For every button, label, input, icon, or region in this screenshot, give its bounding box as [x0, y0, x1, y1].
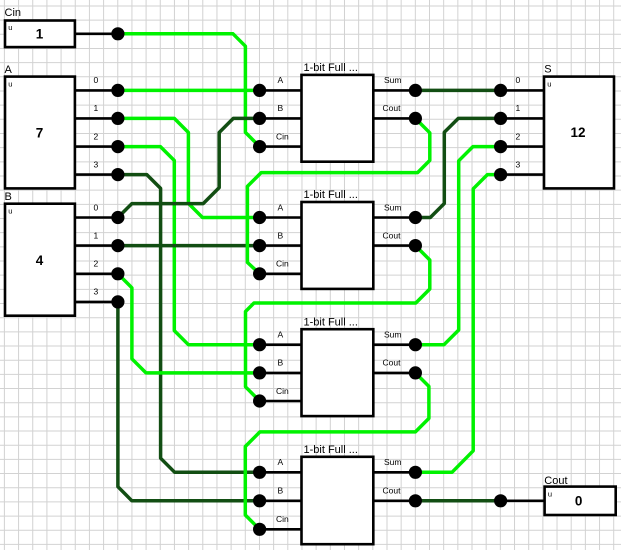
wire net A3 (low)	[118, 175, 260, 473]
wire net B1 (low)	[118, 244, 260, 248]
wire net carry2: U2 Cout to U3 Cin (high)	[246, 246, 430, 401]
U2 pin labels	[276, 202, 401, 268]
svg-text:Cout: Cout	[383, 358, 402, 368]
svg-text:u: u	[8, 80, 12, 89]
svg-text:Sum: Sum	[384, 330, 401, 340]
B pin numbers 0-3	[94, 202, 99, 296]
wire net A2 (high)	[118, 147, 260, 345]
wire net Cin (value 1, high)	[118, 34, 260, 147]
full adder U4 (1-bit Full Adder)	[302, 444, 374, 544]
node U1.A	[253, 84, 266, 97]
wire B bit0 pin stub	[75, 216, 118, 219]
wire U4 input Cin pin stub	[260, 528, 302, 531]
svg-text:B: B	[278, 358, 284, 368]
node A2	[111, 140, 124, 153]
input A (value 7)	[5, 64, 75, 188]
node U1.B	[253, 112, 266, 125]
U1 pin labels	[276, 75, 401, 141]
input B (value 4)	[5, 191, 75, 316]
svg-text:Cin: Cin	[276, 131, 289, 141]
svg-text:B: B	[278, 230, 284, 240]
wire net Sum3: U4 Sum to S bit3 (high)	[415, 175, 500, 473]
wire U2 input A pin stub	[260, 216, 302, 219]
wire U3 input Cin pin stub	[260, 400, 302, 403]
U3 pin labels	[276, 330, 401, 396]
svg-text:0: 0	[575, 494, 583, 509]
wire B bit1 pin stub	[75, 244, 118, 247]
node A3	[111, 168, 124, 181]
node U4.Cin	[253, 523, 266, 536]
svg-text:u: u	[548, 490, 552, 499]
node U4.B	[253, 494, 266, 507]
node U4.Sum	[409, 466, 422, 479]
wire Cout input pin stub	[501, 499, 545, 502]
svg-text:Sum: Sum	[384, 457, 401, 467]
wire net B3 (low)	[118, 302, 260, 501]
svg-text:12: 12	[570, 125, 585, 140]
svg-text:0: 0	[516, 75, 521, 85]
wire net Sum2: U3 Sum to S bit2 (high)	[415, 147, 500, 345]
A pin numbers 0-3	[94, 75, 99, 169]
node S0	[494, 84, 507, 97]
node U2.Cin	[253, 267, 266, 280]
svg-text:0: 0	[94, 75, 99, 85]
input Cin (value 1)	[5, 7, 75, 47]
svg-text:Cin: Cin	[276, 386, 289, 396]
svg-text:3: 3	[516, 159, 521, 169]
node U3.B	[253, 366, 266, 379]
node U3.A	[253, 338, 266, 351]
svg-text:1: 1	[94, 103, 99, 113]
node U3.Sum	[409, 338, 422, 351]
svg-text:Cout: Cout	[383, 230, 402, 240]
wire U4 output Cout pin stub	[373, 499, 415, 502]
wire net Sum1: U2 Sum to S bit1 (low)	[415, 118, 500, 217]
svg-text:7: 7	[36, 126, 44, 141]
svg-text:Cin: Cin	[276, 514, 289, 524]
wire U4 output Sum pin stub	[373, 471, 415, 474]
svg-text:1-bit Full ...: 1-bit Full ...	[304, 189, 358, 201]
node U4.Cout	[409, 494, 422, 507]
node B1	[111, 239, 124, 252]
svg-text:3: 3	[94, 287, 99, 297]
svg-text:Cout: Cout	[383, 103, 402, 113]
wire net B2 (high)	[118, 274, 260, 373]
node A0	[111, 84, 124, 97]
node Cin	[111, 27, 124, 40]
svg-text:S: S	[544, 64, 551, 76]
wire net Cout: U4 Cout to output Cout (low)	[415, 499, 500, 503]
svg-text:2: 2	[94, 131, 99, 141]
wire S bit0 pin stub	[501, 89, 544, 92]
full adder U1 (1-bit Full Adder)	[302, 62, 374, 162]
wire U2 input Cin pin stub	[260, 272, 302, 275]
node U2.B	[253, 239, 266, 252]
node B0	[111, 211, 124, 224]
wire U2 output Sum pin stub	[373, 216, 415, 219]
wire net carry3: U3 Cout to U4 Cin (high)	[245, 373, 429, 529]
wire U1 input Cin pin stub	[260, 145, 302, 148]
node U3.Cin	[253, 394, 266, 407]
node U2.Sum	[409, 211, 422, 224]
wire U4 input B pin stub	[260, 499, 302, 502]
wire U1 output Cout pin stub	[373, 117, 415, 120]
wire net Sum0: U1 Sum to S bit0 (low)	[415, 89, 500, 93]
svg-text:Sum: Sum	[384, 202, 401, 212]
svg-text:2: 2	[94, 259, 99, 269]
svg-text:B: B	[278, 486, 284, 496]
wire B bit2 pin stub	[75, 272, 118, 275]
wire A bit0 pin stub	[75, 89, 118, 92]
svg-text:2: 2	[516, 131, 521, 141]
svg-text:u: u	[8, 207, 12, 216]
svg-text:Cin: Cin	[276, 259, 289, 269]
svg-text:1-bit Full ...: 1-bit Full ...	[304, 316, 358, 328]
node U1.Sum	[409, 84, 422, 97]
output Cout (value 0)	[544, 475, 615, 515]
svg-text:1: 1	[36, 27, 44, 42]
node U1.Cout	[409, 112, 422, 125]
wire S bit3 pin stub	[501, 173, 544, 176]
wire net B0 (low)	[118, 118, 260, 217]
svg-text:A: A	[278, 457, 284, 467]
wire A bit1 pin stub	[75, 117, 118, 120]
svg-text:3: 3	[94, 159, 99, 169]
wire U1 input A pin stub	[260, 89, 302, 92]
svg-text:A: A	[5, 64, 13, 76]
U4 pin labels	[276, 457, 401, 524]
S pin numbers 0-3	[516, 75, 521, 169]
wire A bit2 pin stub	[75, 145, 118, 148]
node S1	[494, 112, 507, 125]
output S (value 12)	[544, 64, 614, 189]
wire Cin output pin stub	[75, 32, 118, 35]
wire S bit1 pin stub	[501, 117, 544, 120]
wire net A0 (high)	[118, 89, 260, 93]
svg-text:4: 4	[36, 253, 44, 268]
node A1	[111, 112, 124, 125]
node U1.Cin	[253, 140, 266, 153]
svg-text:A: A	[278, 75, 284, 85]
svg-text:Sum: Sum	[384, 75, 401, 85]
wire net A1 (high)	[118, 118, 260, 217]
svg-text:Cout: Cout	[383, 486, 402, 496]
wire B bit3 pin stub	[75, 301, 118, 304]
node S2	[494, 140, 507, 153]
svg-text:1-bit Full ...: 1-bit Full ...	[304, 444, 358, 456]
svg-text:Cin: Cin	[5, 7, 22, 19]
wire U3 output Sum pin stub	[373, 343, 415, 346]
node U2.A	[253, 211, 266, 224]
node B3	[111, 295, 124, 308]
wire U3 input B pin stub	[260, 372, 302, 375]
wire U3 input A pin stub	[260, 343, 302, 346]
full adder U2 (1-bit Full Adder)	[302, 189, 374, 289]
wire S bit2 pin stub	[501, 145, 544, 148]
svg-text:Cout: Cout	[544, 475, 567, 487]
svg-text:1-bit Full ...: 1-bit Full ...	[304, 62, 358, 74]
svg-text:B: B	[5, 191, 12, 203]
wire U1 output Sum pin stub	[373, 89, 415, 92]
node Cout	[494, 494, 507, 507]
svg-text:B: B	[278, 103, 284, 113]
svg-text:A: A	[278, 202, 284, 212]
wire U3 output Cout pin stub	[373, 372, 415, 375]
svg-text:1: 1	[94, 230, 99, 240]
svg-text:u: u	[547, 80, 551, 89]
wire U2 output Cout pin stub	[373, 244, 415, 247]
wire U2 input B pin stub	[260, 244, 302, 247]
wire U4 input A pin stub	[260, 471, 302, 474]
svg-text:0: 0	[94, 202, 99, 212]
wire A bit3 pin stub	[75, 173, 118, 176]
svg-text:A: A	[278, 330, 284, 340]
full adder U3 (1-bit Full Adder)	[302, 316, 374, 416]
node U4.A	[253, 466, 266, 479]
svg-text:1: 1	[516, 103, 521, 113]
wire U1 input B pin stub	[260, 117, 302, 120]
wire net carry1: U1 Cout to U2 Cin (high)	[247, 118, 429, 273]
node B2	[111, 267, 124, 280]
node S3	[494, 168, 507, 181]
svg-text:u: u	[8, 23, 12, 32]
node U2.Cout	[409, 239, 422, 252]
node U3.Cout	[409, 366, 422, 379]
